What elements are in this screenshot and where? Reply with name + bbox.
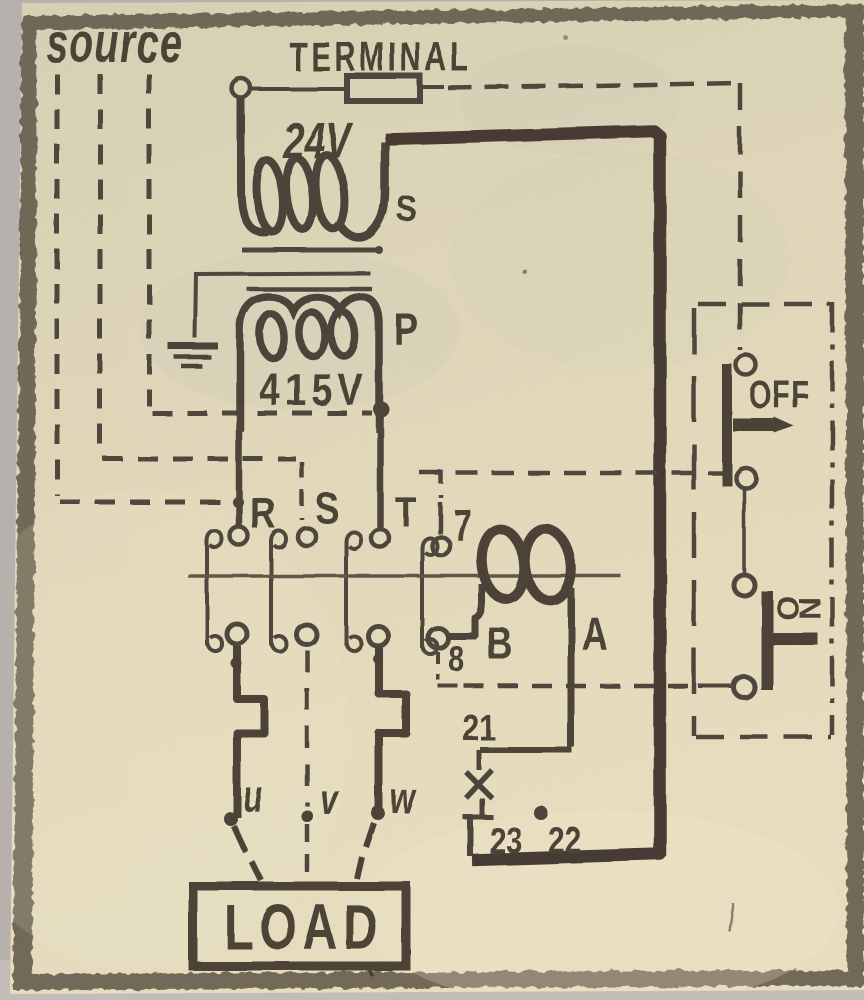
contactor pole 2 top terminal (298, 528, 316, 546)
LOAD box (193, 886, 406, 966)
svg-text:w: w (390, 775, 417, 823)
dashed lead W to load (357, 823, 374, 879)
svg-text:22: 22 (548, 820, 581, 862)
contactor mechanical bus (188, 574, 621, 578)
dashed drop to contact S (300, 462, 305, 520)
dashed enclosure right (830, 302, 835, 735)
wire R phase down (236, 430, 243, 526)
svg-text:S: S (315, 485, 339, 533)
wire down to bottom loop (467, 818, 473, 856)
wire U phase with overload jog (237, 646, 264, 818)
tick below load (368, 966, 372, 976)
OFF button arm (733, 419, 774, 432)
tick at 23 (463, 815, 493, 820)
svg-text:N: N (792, 597, 827, 619)
contactor aux bottom terminal 8 (428, 628, 448, 648)
wire W phase with overload jog (379, 647, 406, 808)
wire coil B to contact 21 (A line) (568, 588, 575, 747)
node dot core bar (375, 246, 383, 254)
dashed wire aux 7 to OFF bottom (420, 471, 726, 476)
transformer core bar lower (247, 287, 372, 292)
svg-text:OFF: OFF (749, 374, 810, 417)
svg-text:23: 23 (489, 820, 522, 862)
contactor pole 3 blade and hooks (346, 532, 361, 651)
svg-text:24V: 24V (282, 114, 353, 169)
svg-text:8: 8 (448, 638, 464, 679)
wire core screen to ground (195, 273, 370, 338)
dashed vertical to OFF switch (738, 83, 743, 350)
node dot U lower (224, 812, 238, 826)
border frame right (845, 4, 864, 987)
speck (523, 270, 528, 275)
svg-text:LOAD: LOAD (224, 891, 384, 962)
contactor pole 3 top terminal (371, 529, 389, 547)
transformer primary coil P (240, 297, 379, 432)
contactor pole 2 blade and hooks (271, 531, 286, 651)
svg-text:7: 7 (453, 501, 471, 550)
ON button top terminal (734, 575, 755, 596)
svg-text:T: T (395, 489, 417, 536)
svg-text:source: source (46, 13, 183, 75)
transformer secondary coil S (241, 96, 385, 237)
svg-text:B: B (487, 618, 513, 669)
transformer core bar upper (242, 248, 378, 253)
dashed enclosure bottom (696, 735, 831, 740)
svg-text:S: S (396, 188, 417, 229)
OFF button plunger (722, 364, 732, 486)
svg-text:v: v (320, 776, 339, 824)
svg-text:21: 21 (462, 707, 495, 749)
wire resistor to dashes (420, 85, 444, 89)
contactor pole 1 top terminal (230, 527, 248, 545)
border frame left (13, 16, 37, 988)
dashed lead V to load (305, 824, 310, 884)
wire below X (480, 798, 485, 815)
node dot U upper (231, 658, 242, 669)
dashed lead U to load (234, 826, 261, 880)
ON button arm (772, 633, 818, 645)
dashed wire to OFF branch (448, 83, 740, 88)
pen scratch mark (729, 903, 733, 931)
svg-text:TERMINAL: TERMINAL (289, 33, 472, 80)
svg-text:u: u (243, 773, 263, 821)
svg-text:415V: 415V (259, 364, 368, 415)
OFF button bottom terminal (736, 468, 756, 488)
dashed drop below terminal 8 (436, 652, 440, 680)
thick wire secondary to A-line loop (385, 131, 660, 860)
border frame bottom (13, 970, 852, 990)
node blob on R line (233, 497, 244, 508)
node dot W lower (371, 806, 385, 820)
contactor pole 2 bottom terminal (296, 624, 316, 644)
coil B feed wire from terminal 8 (447, 584, 482, 636)
contactor aux pole blade and hooks (422, 538, 437, 654)
svg-text:R: R (250, 490, 276, 538)
source dashed line 2 (100, 74, 296, 459)
node dot on T line (373, 401, 389, 417)
wire circle to resistor (251, 87, 346, 91)
ON button bottom terminal (734, 677, 755, 698)
dashed wire to ON bottom (464, 684, 698, 689)
dashed enclosure top (698, 302, 830, 307)
source dashed line 3 (149, 74, 372, 413)
wire to ON bottom terminal (698, 684, 731, 688)
wire down to contact (477, 750, 482, 770)
wire contact 21 horizontal (480, 747, 572, 753)
resistor TERMINAL box (347, 76, 420, 101)
contactor pole 1 blade and hooks (207, 531, 222, 651)
speck (564, 36, 569, 41)
wire T phase down (377, 408, 384, 527)
OFF button top terminal (736, 355, 756, 375)
dashed drop to aux terminal 7 (439, 470, 444, 498)
ground (168, 346, 218, 366)
node dot V (301, 810, 313, 822)
corner piece terminal 8 (438, 684, 458, 688)
dashed enclosure left (692, 308, 697, 736)
svg-text:P: P (394, 305, 419, 355)
node dot 22 (534, 806, 548, 820)
wire OFF to ON (742, 489, 746, 573)
contactor pole 3 bottom terminal (368, 626, 388, 646)
node dot W upper (373, 654, 383, 664)
source dashed line 1 (57, 74, 228, 502)
svg-text:A: A (581, 609, 608, 661)
dashed wire V phase (305, 650, 310, 806)
contactor pole 1 bottom terminal (227, 624, 247, 644)
ON button plunger (761, 591, 773, 690)
contactor coil B (478, 526, 575, 603)
terminal circle (secondary top) (232, 79, 251, 98)
contact X mark (466, 770, 492, 798)
contactor aux top terminal 7 (432, 537, 450, 555)
